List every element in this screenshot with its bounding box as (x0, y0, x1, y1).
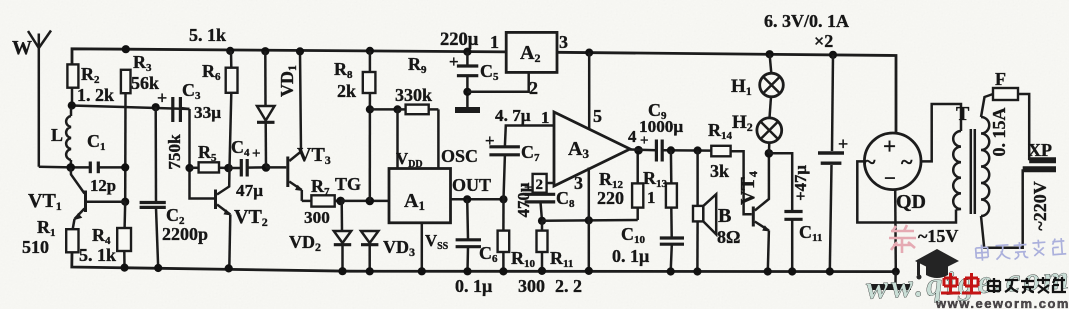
node R13 top (667, 146, 675, 154)
watermark lavender chinese text (975, 238, 1066, 262)
watermark red chars (941, 273, 981, 293)
svg-text:5: 5 (593, 106, 602, 126)
svg-text:2: 2 (536, 177, 544, 193)
capacitor C9 (628, 100, 711, 162)
wire fuse to plug (1018, 94, 1029, 160)
node main ground junction (892, 268, 900, 276)
node VD2 bottom (338, 267, 346, 275)
speaker B (693, 151, 740, 272)
svg-text:0. 15A: 0. 15A (989, 108, 1009, 157)
capacitor filter (unlabeled electrolytic) (818, 55, 848, 272)
svg-text:750k: 750k (165, 134, 184, 170)
wire bottom rail (72, 252, 896, 271)
node VT3 collector top (296, 47, 304, 55)
node R11 bottom (538, 267, 546, 275)
diode VD3 (361, 231, 415, 271)
node R2 bottom (68, 101, 76, 109)
capacitor C6 (456, 199, 498, 271)
transistor VT1 (28, 167, 125, 229)
node C11 bottom (788, 267, 796, 275)
svg-text:+: + (157, 88, 167, 108)
resistor R5 (190, 142, 229, 173)
node C6 top (463, 195, 471, 203)
node VD3 top (366, 197, 375, 206)
node VDD drop (393, 105, 401, 113)
svg-text:1. 2k: 1. 2k (77, 85, 114, 105)
node A3 output (634, 146, 643, 155)
diode VD2 (289, 201, 351, 271)
lamp H2 (732, 97, 782, 154)
resistor R3 (121, 52, 159, 93)
svg-text:470μ: 470μ (514, 182, 533, 217)
svg-text:0. 1μ: 0. 1μ (612, 246, 649, 266)
svg-text:33μ: 33μ (194, 103, 221, 122)
svg-text:×2: ×2 (814, 31, 833, 51)
capacitor C7 (485, 106, 554, 199)
node R6 top (226, 47, 234, 55)
svg-text:330k: 330k (395, 85, 432, 105)
svg-text:4. 7μ: 4. 7μ (495, 106, 531, 125)
capacitor C8 (524, 180, 575, 221)
svg-text:220μ: 220μ (440, 30, 479, 50)
svg-text:+: + (252, 146, 261, 162)
svg-text:1: 1 (541, 108, 549, 127)
capacitor C10 (612, 224, 684, 272)
node C6 bottom (463, 267, 471, 275)
node speaker top (694, 146, 702, 154)
rectifier QD (864, 133, 926, 213)
transformer T (953, 103, 989, 216)
resistor R8 (334, 51, 375, 201)
node TG (336, 197, 345, 206)
node R3 top (122, 45, 130, 53)
svg-text:2: 2 (529, 78, 538, 98)
node pin3 bottom (585, 267, 593, 275)
wire pin3 of A3 (588, 168, 591, 271)
node VSS bottom (418, 267, 426, 275)
resistor R9 (395, 54, 438, 114)
node C10 bottom (667, 267, 675, 275)
transistor VT4 (737, 153, 770, 271)
svg-text:47μ: 47μ (236, 181, 263, 200)
svg-text:QD: QD (896, 191, 926, 213)
op-amp U A1 (389, 146, 491, 252)
node C1 right (121, 163, 129, 171)
wire antenna to tank node (39, 166, 71, 169)
wire VDD pin (396, 109, 399, 168)
watermark graduation cap logo (915, 249, 959, 280)
svg-text:F: F (995, 69, 1006, 89)
svg-text:220: 220 (597, 188, 624, 208)
plug XP (1023, 140, 1056, 169)
node filter cap bottom (826, 267, 834, 275)
svg-text:OUT: OUT (452, 175, 491, 195)
resistor R11 (537, 221, 574, 271)
wire output (630, 148, 656, 151)
svg-text:1000μ: 1000μ (639, 117, 683, 136)
wire QD minus to ground (894, 190, 897, 272)
resistor R13 (643, 150, 677, 237)
capacitor C2 (140, 107, 208, 268)
ground under C5 (455, 107, 480, 113)
wire TG to A1 (341, 200, 389, 203)
capacitor C3 (157, 80, 221, 122)
svg-text:56k: 56k (131, 73, 159, 93)
resistor R4 (79, 202, 131, 268)
node C5 / A2 pin2 (463, 88, 471, 96)
wire A2 pin2 (467, 72, 528, 91)
capacitor C11 (769, 153, 823, 271)
svg-text:2200p: 2200p (162, 224, 208, 244)
svg-text:510: 510 (22, 237, 49, 257)
svg-text:2. 2: 2. 2 (555, 276, 582, 296)
inductor L (51, 108, 71, 168)
svg-text:+: + (838, 134, 848, 154)
wire feedback line (542, 219, 638, 222)
wire QD left AC terminal (857, 161, 956, 222)
node C8/R11 (538, 217, 546, 225)
fuse F (993, 69, 1018, 100)
node VD1 bottom / VT3 base (262, 163, 271, 172)
op-amp U A2 (490, 32, 568, 98)
svg-text:~15V: ~15V (918, 226, 958, 246)
svg-text:2k: 2k (337, 81, 356, 101)
node tank left (66, 163, 75, 172)
svg-text:5. 1k: 5. 1k (189, 25, 226, 45)
capacitor C1 (71, 131, 126, 195)
ground symbol (871, 272, 911, 287)
node H1 top (766, 50, 774, 58)
node A2 out / pin5 drop (585, 49, 593, 57)
node R5 right / VT2 collector (224, 164, 233, 173)
node VT2 emitter bottom (225, 264, 233, 272)
transistor VT3 (266, 51, 331, 201)
svg-text:+: + (883, 134, 896, 159)
capacitor C4 (229, 137, 267, 200)
pin2 box of A3 (533, 174, 554, 193)
antenna W (12, 31, 51, 167)
wire OSC pin (437, 109, 440, 168)
wire R3 bottom to base node (124, 93, 127, 202)
svg-text:1: 1 (490, 32, 499, 52)
resistor R6 (202, 51, 238, 168)
svg-text:T: T (956, 103, 970, 125)
node VD1 top (261, 47, 269, 55)
resistor R1 (22, 217, 79, 257)
node speaker bottom (693, 267, 701, 275)
node feedback/pin3 (585, 216, 593, 224)
svg-text:~: ~ (864, 149, 876, 174)
svg-text:5. 1k: 5. 1k (79, 245, 116, 265)
svg-text:OSC: OSC (441, 146, 478, 166)
node R5 left (185, 164, 193, 172)
watermark pink char (889, 225, 916, 253)
svg-text:XP: XP (1028, 140, 1052, 160)
svg-text:12p: 12p (90, 176, 116, 195)
node R8 top (366, 47, 374, 55)
svg-text:B: B (718, 205, 731, 227)
svg-text:+: + (449, 52, 459, 71)
diode VD1 (257, 51, 299, 167)
transistor VT2 (214, 168, 268, 268)
svg-text:~: ~ (901, 149, 913, 174)
resistor R12 (597, 150, 643, 220)
svg-text:~220V: ~220V (1030, 181, 1050, 230)
node C2 bottom (154, 264, 162, 272)
resistor R7 (302, 176, 341, 227)
wire top rail left section (72, 49, 506, 65)
svg-text:TG: TG (335, 174, 361, 194)
op-amp A3 (554, 112, 630, 186)
wire R8 to R9/VDD (370, 108, 398, 111)
svg-text:3: 3 (574, 173, 583, 193)
node VT4 emitter bottom (764, 267, 772, 275)
wire top rail right section to QD (557, 52, 896, 133)
svg-text:8Ω: 8Ω (717, 227, 740, 247)
svg-text:6. 3V/0. 1A: 6. 3V/0. 1A (764, 11, 849, 31)
resistor R10 (498, 199, 536, 271)
resistor R14 (708, 120, 752, 214)
svg-text:300: 300 (518, 276, 545, 296)
wire OUT line (451, 198, 505, 201)
svg-text:L: L (51, 125, 63, 145)
node filter cap top (829, 51, 837, 59)
wire mid bias line (72, 88, 190, 109)
wire QD right AC terminal (921, 104, 961, 161)
wire VSS pin (421, 223, 424, 271)
svg-text:300: 300 (304, 208, 330, 227)
node R10 bottom (499, 267, 507, 275)
node VT1 base (121, 198, 129, 206)
svg-text:−: − (884, 166, 896, 190)
svg-text:www.eeworm.com: www.eeworm.com (935, 296, 1069, 309)
watermark black chinese text (988, 277, 1066, 293)
node R4 bottom (120, 264, 128, 272)
node C2 top (152, 103, 160, 111)
node R8 bottom junction (366, 105, 374, 113)
node C7/R10 (499, 195, 507, 203)
capacitor C5 (440, 30, 499, 108)
wire pin5 of A3 (588, 53, 591, 129)
svg-text:+47μ: +47μ (791, 165, 810, 201)
svg-text:W: W (12, 37, 32, 59)
svg-text:+: + (485, 131, 495, 150)
resistor 750k (feedback line) (165, 109, 214, 199)
svg-text:3: 3 (559, 32, 568, 52)
node VD3 bottom (366, 267, 374, 275)
lamp H1 (731, 54, 783, 98)
node VT4 collector / H2 (765, 149, 774, 158)
svg-text:0. 1μ: 0. 1μ (455, 276, 492, 296)
wire primary top to fuse (981, 94, 993, 117)
resistor R2 (67, 64, 114, 105)
wire primary bottom loop (981, 169, 1023, 248)
svg-text:1: 1 (647, 188, 655, 207)
svg-text:4: 4 (628, 127, 637, 146)
svg-text:3k: 3k (710, 161, 729, 181)
